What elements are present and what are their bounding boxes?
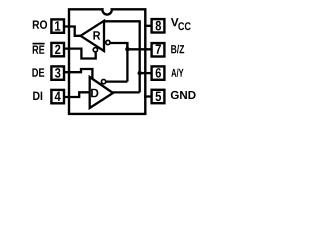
wire A/Y bus to pin 6 <box>140 72 152 74</box>
label R <box>93 31 100 39</box>
junction dot B/Z net <box>125 47 129 51</box>
wire B/Z bus to pin 7 <box>127 48 152 50</box>
label RO <box>33 20 47 29</box>
pin 1 box <box>51 19 64 32</box>
bubble receiver inverting input <box>106 40 110 44</box>
pin 6 box <box>152 66 165 79</box>
junction dot A/Y net <box>138 71 142 75</box>
pin 8 number <box>156 21 161 31</box>
wire driver output Y (apex) to A/Y bus <box>111 91 140 93</box>
op-amp R (receiver triangle) <box>81 21 105 51</box>
IC body U1 (8-pin package outline with notch) <box>69 9 145 114</box>
wire driver inverting output Z bubble to B/Z bus <box>106 80 127 82</box>
pin 2 box <box>51 43 64 56</box>
pin 5 number <box>156 92 162 102</box>
wire receiver noninverting input to A/Y bus <box>104 20 140 22</box>
pin 7 box <box>152 43 165 56</box>
pin 1 number <box>55 21 60 30</box>
label A/Y <box>171 69 183 78</box>
pin 5 box <box>152 90 165 103</box>
pin 8 box <box>152 19 165 32</box>
label DE <box>32 68 44 76</box>
pin 6 number <box>156 68 161 78</box>
pin 2 number <box>55 45 60 54</box>
label RE (active low) <box>33 46 45 54</box>
label D <box>91 89 98 98</box>
wire B/Z vertical bus <box>126 43 128 82</box>
label GND <box>171 91 196 99</box>
pin 3 number <box>55 68 60 78</box>
wire A/Y vertical bus <box>139 20 141 92</box>
wire pin 5 stub <box>144 95 151 97</box>
pin 4 number <box>55 92 61 101</box>
wire pin 8 stub <box>144 25 151 27</box>
wire receiver inverting input to B/Z bus <box>110 43 127 49</box>
pin 4 box <box>51 90 64 103</box>
bubble receiver enable (inverting) <box>93 48 97 52</box>
label B/Z <box>171 45 184 54</box>
wire RO: pin 1 to receiver output <box>64 27 81 36</box>
pin 3 box <box>51 66 64 79</box>
op-amp D (driver triangle) <box>90 77 113 108</box>
bubble driver inverting output Z <box>101 79 105 83</box>
overline for RE <box>33 43 45 45</box>
wire DI: pin 4 to driver input <box>64 92 90 97</box>
wire DE: pin 3 to driver enable <box>64 69 92 81</box>
wire RE: pin 2 to receiver enable bubble <box>64 49 96 59</box>
pin 7 number <box>156 45 161 54</box>
label DI <box>33 92 42 100</box>
label VCC <box>171 18 179 26</box>
